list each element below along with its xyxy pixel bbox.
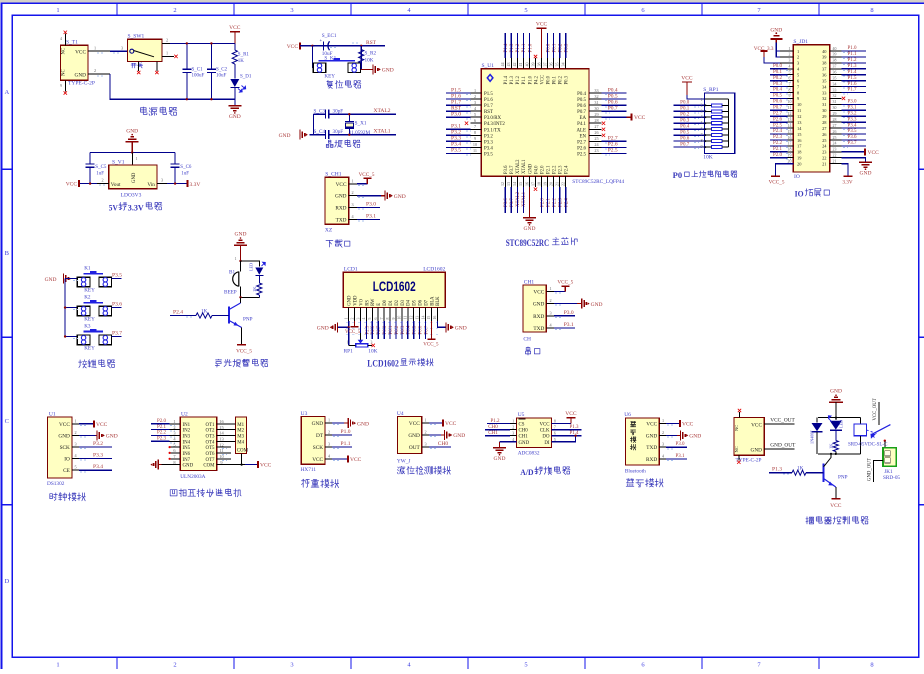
caption shi-zhong-mo-kuai xyxy=(50,493,86,501)
net CH0 level xyxy=(429,446,451,448)
connector JD1 40-pin IO header xyxy=(793,45,829,172)
diode 1N4007 xyxy=(816,418,818,423)
JD1 left pin wires xyxy=(780,50,793,52)
resistor relay 1K xyxy=(835,430,837,440)
svg-text:5: 5 xyxy=(368,318,372,320)
svg-text:CH1: CH1 xyxy=(519,435,529,440)
svg-text:3: 3 xyxy=(550,310,552,315)
svg-text:XTAL2: XTAL2 xyxy=(374,108,391,114)
svg-text:P3.5: P3.5 xyxy=(112,272,122,278)
svg-text:35: 35 xyxy=(833,77,837,81)
svg-text:STC89C52RC: STC89C52RC xyxy=(506,238,550,248)
svg-text:RST: RST xyxy=(366,40,377,46)
svg-text:GND_OUT: GND_OUT xyxy=(770,443,796,449)
svg-text:VCC: VCC xyxy=(96,422,108,428)
svg-text:P4.3/INT2: P4.3/INT2 xyxy=(484,122,505,127)
svg-text:1K: 1K xyxy=(238,59,245,64)
svg-text:1: 1 xyxy=(662,418,664,423)
level module U4 YW_J xyxy=(398,417,422,454)
svg-text:Vout: Vout xyxy=(111,182,121,188)
svg-text:RS: RS xyxy=(365,300,370,306)
svg-text:28: 28 xyxy=(594,118,598,123)
power VCC_5 serial xyxy=(554,291,565,293)
svg-text:14: 14 xyxy=(788,124,792,128)
svg-text:P3.2: P3.2 xyxy=(484,134,493,139)
svg-text:LCD1602: LCD1602 xyxy=(373,279,416,294)
resistor RP1 element 5 xyxy=(711,128,722,131)
svg-text:B: B xyxy=(5,250,10,257)
svg-text:P0.5: P0.5 xyxy=(680,130,690,135)
svg-text:S_X1: S_X1 xyxy=(355,121,367,127)
svg-text:VCC: VCC xyxy=(260,463,272,469)
svg-text:40: 40 xyxy=(833,47,837,51)
svg-text:P1.4: P1.4 xyxy=(504,75,509,84)
svg-text:1: 1 xyxy=(352,178,354,183)
svg-text:D3: D3 xyxy=(401,299,406,305)
svg-text:S_R1: S_R1 xyxy=(238,53,250,58)
svg-text:CS: CS xyxy=(519,423,525,428)
svg-text:GND: GND xyxy=(229,114,241,120)
ADC U5 ADC0832 xyxy=(516,418,551,448)
transistor Q2 PNP relay xyxy=(822,464,824,482)
svg-text:8: 8 xyxy=(870,7,873,14)
net P3.2 clock SCK xyxy=(79,446,112,448)
svg-text:11: 11 xyxy=(788,106,792,110)
svg-text:9: 9 xyxy=(701,145,703,149)
wire alarm right branch xyxy=(241,261,260,267)
svg-text:3.3V: 3.3V xyxy=(842,180,852,186)
svg-text:5: 5 xyxy=(524,7,527,14)
svg-text:XZ: XZ xyxy=(325,228,333,234)
svg-text:36: 36 xyxy=(548,63,553,67)
svg-text:P2.1: P2.1 xyxy=(546,165,551,174)
pushbutton K3 KEY xyxy=(65,336,77,338)
regulator V1 LDO3V3 xyxy=(132,153,134,165)
ground LDO top xyxy=(126,141,139,143)
net P0.5 pullup xyxy=(674,134,705,136)
svg-text:CH0: CH0 xyxy=(438,441,449,447)
svg-text:P1.3: P1.3 xyxy=(510,75,515,84)
svg-text:S_V1: S_V1 xyxy=(112,159,125,165)
net P3.1 bluetooth xyxy=(666,458,687,460)
svg-text:39: 39 xyxy=(833,53,837,57)
svg-text:IN1: IN1 xyxy=(183,423,191,428)
svg-text:30pF: 30pF xyxy=(333,129,344,135)
svg-text:P3.4: P3.4 xyxy=(93,464,103,470)
svg-text:S_JD1: S_JD1 xyxy=(793,39,808,45)
caption an-jian-dian-lu xyxy=(79,360,115,368)
caption xia-zai-kou xyxy=(326,240,350,248)
svg-text:U3: U3 xyxy=(301,411,308,417)
svg-text:P4.0: P4.0 xyxy=(534,165,539,174)
svg-text:P3.0: P3.0 xyxy=(366,201,376,207)
svg-text:15: 15 xyxy=(788,130,792,134)
svg-text:HX711: HX711 xyxy=(301,467,317,473)
svg-text:IO: IO xyxy=(795,189,804,199)
svg-text:1: 1 xyxy=(56,662,59,669)
svg-text:32: 32 xyxy=(822,96,826,101)
svg-text:P3.2: P3.2 xyxy=(847,111,857,116)
svg-text:P2.5: P2.5 xyxy=(608,148,618,154)
svg-text:2: 2 xyxy=(328,430,330,435)
net P3.1 download xyxy=(357,219,380,221)
svg-text:41: 41 xyxy=(518,63,523,67)
svg-text:20: 20 xyxy=(788,160,792,164)
svg-text:27: 27 xyxy=(594,124,598,129)
svg-text:IN6: IN6 xyxy=(183,452,191,457)
svg-text:P3.0: P3.0 xyxy=(675,442,685,447)
caption sheng-guang-bao-jing xyxy=(215,359,268,367)
net P1.0 HX711 xyxy=(332,434,352,436)
svg-text:P2.4: P2.4 xyxy=(173,310,183,316)
svg-text:P3.3: P3.3 xyxy=(484,140,493,145)
svg-text:VCC: VCC xyxy=(350,457,362,463)
wire relay common up VCC_OUT xyxy=(878,402,880,425)
ground LCD left xyxy=(337,322,339,332)
svg-text:3: 3 xyxy=(356,318,360,320)
svg-text:P1.4: P1.4 xyxy=(847,70,857,75)
net P3.0 download xyxy=(357,206,380,208)
svg-text:TYPE-C-2P: TYPE-C-2P xyxy=(68,80,95,86)
resistor alarm base 1K xyxy=(212,315,229,317)
svg-text:DO: DO xyxy=(542,435,550,440)
svg-text:P0.4: P0.4 xyxy=(773,88,783,93)
net P0.1 pullup xyxy=(674,110,705,112)
net P3.3 clock IO xyxy=(79,458,112,460)
LCD pin1 GND wire xyxy=(338,321,349,328)
svg-text:P2.3: P2.3 xyxy=(157,437,167,442)
svg-text:33: 33 xyxy=(833,88,837,92)
svg-text:P1.7: P1.7 xyxy=(847,88,857,93)
svg-text:21: 21 xyxy=(822,162,826,167)
svg-text:P1.3: P1.3 xyxy=(772,467,782,473)
wire OT2 to M2 xyxy=(217,429,236,431)
svg-text:P2.3: P2.3 xyxy=(559,165,564,174)
svg-text:A: A xyxy=(4,89,9,96)
svg-text:C: C xyxy=(5,418,9,425)
svg-text:S_CH1: S_CH1 xyxy=(325,172,341,178)
svg-text:8: 8 xyxy=(789,88,791,92)
svg-text:GND: GND xyxy=(126,128,138,134)
svg-text:23: 23 xyxy=(833,148,837,152)
svg-text:2: 2 xyxy=(797,55,799,60)
svg-text:IN4: IN4 xyxy=(183,440,191,445)
ground reset xyxy=(360,63,362,69)
svg-text:30: 30 xyxy=(833,106,837,110)
svg-text:XTAL1: XTAL1 xyxy=(522,159,527,174)
wire contact to JK1 xyxy=(884,441,886,448)
svg-text:VCC: VCC xyxy=(336,182,347,188)
svg-text:YW_J: YW_J xyxy=(397,459,411,465)
ground keys xyxy=(63,274,65,284)
svg-text:1: 1 xyxy=(797,49,799,54)
svg-text:S_T1: S_T1 xyxy=(66,40,78,46)
svg-text:40: 40 xyxy=(524,63,529,67)
LCD light blue artifacts xyxy=(346,322,438,324)
svg-text:17: 17 xyxy=(788,142,792,146)
resistor pack RP1 10K xyxy=(705,93,735,153)
svg-text:5: 5 xyxy=(701,121,703,125)
svg-text:VCC: VCC xyxy=(751,422,762,428)
wire T1 VCC to switch xyxy=(88,50,110,52)
svg-text:29: 29 xyxy=(594,112,598,117)
svg-text:CH0: CH0 xyxy=(519,429,529,434)
svg-text:P0.6: P0.6 xyxy=(773,100,783,105)
svg-text:5V: 5V xyxy=(109,203,119,213)
power VCC bluetooth xyxy=(666,423,680,425)
svg-text:P0.0: P0.0 xyxy=(546,75,551,84)
svg-text:OT2: OT2 xyxy=(206,429,216,434)
svg-text:S_RP1: S_RP1 xyxy=(703,87,719,93)
caption ji-dian-qi relay control xyxy=(806,516,868,524)
svg-text:18: 18 xyxy=(536,182,541,186)
svg-text:19: 19 xyxy=(788,154,792,158)
svg-text:14: 14 xyxy=(512,182,517,186)
svg-text:1: 1 xyxy=(345,318,349,320)
svg-text:P1.5: P1.5 xyxy=(484,92,493,97)
svg-text:GND: GND xyxy=(689,434,701,440)
svg-text:OT5: OT5 xyxy=(206,446,216,451)
svg-text:28: 28 xyxy=(833,118,837,122)
resistor relay base 1K xyxy=(806,472,824,474)
svg-text:6: 6 xyxy=(374,318,378,320)
svg-text:P0: P0 xyxy=(673,170,683,180)
svg-text:10: 10 xyxy=(473,142,477,147)
svg-text:3: 3 xyxy=(701,109,703,113)
svg-text:P0.2: P0.2 xyxy=(559,75,564,84)
svg-text:P1.6: P1.6 xyxy=(847,82,857,87)
svg-text:8: 8 xyxy=(701,139,703,143)
LED D1 xyxy=(234,64,236,79)
svg-text:GND: GND xyxy=(235,232,247,238)
svg-text:13: 13 xyxy=(788,118,792,122)
svg-text:31: 31 xyxy=(833,100,837,104)
svg-text:P0.0: P0.0 xyxy=(773,64,783,69)
svg-text:P1.2: P1.2 xyxy=(516,75,521,84)
svg-text:34: 34 xyxy=(561,63,566,67)
svg-text:GND: GND xyxy=(394,194,406,200)
svg-text:10K: 10K xyxy=(703,155,713,161)
resistor RP1 element 4 xyxy=(711,122,722,125)
svg-text:6: 6 xyxy=(789,77,791,81)
svg-text:VCC: VCC xyxy=(539,423,549,428)
svg-text:VCC: VCC xyxy=(565,411,577,417)
svg-text:3: 3 xyxy=(328,441,330,446)
svg-text:100uF: 100uF xyxy=(192,74,205,79)
net P0.3 pullup xyxy=(674,122,705,124)
svg-text:LCD1602: LCD1602 xyxy=(423,267,445,273)
svg-text:P3.0: P3.0 xyxy=(564,310,574,316)
svg-text:U5: U5 xyxy=(518,412,525,418)
ground bluetooth xyxy=(666,434,677,436)
svg-text:IN2: IN2 xyxy=(183,429,191,434)
svg-text:IN3: IN3 xyxy=(183,435,191,440)
svg-text:P3.1/TX: P3.1/TX xyxy=(484,128,501,133)
svg-text:P3.7: P3.7 xyxy=(112,330,122,336)
svg-text:GND: GND xyxy=(312,421,324,427)
svg-text:P0.1: P0.1 xyxy=(773,70,783,75)
wire OT4 to M4 xyxy=(217,440,236,442)
relay bottom rail xyxy=(818,453,860,455)
net P3.0 serial xyxy=(554,315,575,317)
svg-text:P2.5: P2.5 xyxy=(773,123,783,128)
svg-text:39: 39 xyxy=(530,63,535,67)
svg-text:BLA: BLA xyxy=(430,296,435,306)
svg-text:GND: GND xyxy=(455,326,467,332)
LCD pin3 VO to potentiometer xyxy=(360,321,362,333)
net P0.2 pullup xyxy=(674,116,705,118)
svg-text:P2.0: P2.0 xyxy=(540,165,545,174)
svg-text:12: 12 xyxy=(410,316,414,320)
caption lan-ya-mo-kuai xyxy=(626,479,663,487)
svg-text:2: 2 xyxy=(662,430,664,435)
svg-text:D1: D1 xyxy=(389,299,394,305)
svg-text:CH1: CH1 xyxy=(524,279,535,285)
svg-text:P3.1: P3.1 xyxy=(675,454,685,459)
switch right pin 2 xyxy=(162,42,170,44)
svg-text:3: 3 xyxy=(290,662,293,669)
svg-text:TXD: TXD xyxy=(336,218,347,224)
svg-text:CE: CE xyxy=(63,468,70,474)
svg-text:VCC_5: VCC_5 xyxy=(423,343,439,348)
svg-text:VCC: VCC xyxy=(409,421,420,427)
svg-text:1: 1 xyxy=(56,7,59,14)
display LCD1 LCD1602 xyxy=(343,272,445,307)
svg-text:GND: GND xyxy=(830,388,842,394)
power VCC clock xyxy=(79,423,94,425)
svg-text:VCC: VCC xyxy=(229,25,241,31)
svg-text:XTAL1: XTAL1 xyxy=(374,129,391,135)
svg-text:20: 20 xyxy=(548,182,553,186)
svg-text:P3.6: P3.6 xyxy=(847,135,857,140)
svg-text:P4.1: P4.1 xyxy=(577,122,586,127)
svg-text:29: 29 xyxy=(833,112,837,116)
svg-text:NC: NC xyxy=(734,446,739,452)
svg-text:P0.3: P0.3 xyxy=(565,75,570,84)
svg-text:GND: GND xyxy=(770,28,782,34)
svg-text:S_SW1: S_SW1 xyxy=(128,34,145,40)
svg-text:VCC: VCC xyxy=(75,49,86,55)
svg-text:7: 7 xyxy=(474,124,476,129)
power VCC HX711 xyxy=(332,458,348,460)
wire LDO top rail xyxy=(90,152,175,154)
wire OT1 to M1 xyxy=(217,423,236,425)
svg-text:NC: NC xyxy=(734,425,739,431)
border row ticks left xyxy=(2,168,13,170)
CS overline xyxy=(519,418,526,420)
svg-text:VCC: VCC xyxy=(681,76,693,82)
svg-text:VCC: VCC xyxy=(312,457,323,463)
LCD pin2 VCC_5 xyxy=(354,321,356,327)
svg-text:P2.7: P2.7 xyxy=(773,111,783,116)
svg-text:KEY: KEY xyxy=(324,74,335,80)
svg-text:VCC: VCC xyxy=(445,421,457,427)
svg-text:5: 5 xyxy=(75,465,77,470)
svg-text:38: 38 xyxy=(536,63,541,67)
svg-text:43: 43 xyxy=(506,63,511,67)
svg-text:12: 12 xyxy=(788,112,792,116)
svg-text:33: 33 xyxy=(594,88,598,93)
svg-text:26: 26 xyxy=(594,130,598,135)
ground LCD right xyxy=(445,322,447,332)
svg-text:3: 3 xyxy=(512,432,514,436)
svg-text:PNP: PNP xyxy=(243,317,253,323)
net P3.0 bluetooth xyxy=(666,446,687,448)
svg-text:BEEP: BEEP xyxy=(224,290,237,296)
svg-text:37: 37 xyxy=(833,65,837,69)
VCC input left xyxy=(97,183,109,185)
svg-text:LDO3V3: LDO3V3 xyxy=(121,193,142,199)
svg-text:30: 30 xyxy=(594,106,598,111)
svg-text:KEY: KEY xyxy=(84,346,95,352)
svg-text:27: 27 xyxy=(833,124,837,128)
svg-text:P3.1: P3.1 xyxy=(564,322,574,328)
connector T1 TYPE-C-2P xyxy=(61,45,89,80)
svg-text:SRD-05VDC-SL-C: SRD-05VDC-SL-C xyxy=(848,442,888,447)
svg-text:VCC: VCC xyxy=(66,182,78,188)
svg-text:P3.3: P3.3 xyxy=(451,136,461,142)
svg-text:P0.1: P0.1 xyxy=(680,107,690,112)
net P1.4 ADC DO/DI xyxy=(551,435,581,437)
svg-text:3: 3 xyxy=(290,7,293,14)
svg-text:P0.7: P0.7 xyxy=(773,106,783,111)
svg-text:P0.7: P0.7 xyxy=(608,105,618,111)
svg-text:GND: GND xyxy=(519,441,530,446)
svg-text:P3.0/RX: P3.0/RX xyxy=(484,116,501,121)
net P0.0 pullup xyxy=(674,104,705,106)
svg-text:SCK: SCK xyxy=(313,445,323,451)
weighing module U3 HX711 xyxy=(301,417,325,465)
relay coil K1 SRD-05VDC-SL-C xyxy=(859,418,861,425)
T1 top pin xyxy=(64,34,66,46)
svg-text:P2.2: P2.2 xyxy=(773,141,783,146)
svg-text:5: 5 xyxy=(474,112,476,117)
svg-text:SRD-05: SRD-05 xyxy=(883,475,900,481)
switch right pin 1 no-connect xyxy=(162,55,174,57)
svg-text:1K: 1K xyxy=(797,466,804,472)
svg-text:P4.2: P4.2 xyxy=(534,75,539,84)
svg-text:3.3V: 3.3V xyxy=(190,182,201,188)
svg-text:8: 8 xyxy=(870,662,873,669)
ULN2003 unused outputs xyxy=(217,446,231,448)
svg-text:VCC_5: VCC_5 xyxy=(236,349,252,355)
svg-text:VCC_OUT: VCC_OUT xyxy=(770,418,795,424)
resistor RP1 element 6 xyxy=(711,134,722,137)
ground crystal xyxy=(299,130,301,140)
svg-text:2: 2 xyxy=(352,190,354,195)
buzzer B1 BEEP xyxy=(240,261,242,272)
svg-text:D0: D0 xyxy=(383,299,388,305)
svg-text:VCC: VCC xyxy=(533,290,544,296)
svg-text:P2.1: P2.1 xyxy=(157,425,167,430)
resistor R2 10K xyxy=(360,46,362,50)
svg-text:VCC: VCC xyxy=(682,422,694,428)
svg-text:P3.3: P3.3 xyxy=(93,453,103,459)
power VCC relay xyxy=(835,487,837,499)
svg-text:2: 2 xyxy=(789,53,791,57)
power VCC level xyxy=(429,422,443,424)
svg-text:K1: K1 xyxy=(84,265,91,271)
svg-text:1: 1 xyxy=(425,418,427,423)
svg-text:32: 32 xyxy=(594,94,598,99)
power VCC xyxy=(230,31,240,33)
caption chuan-kou xyxy=(526,347,540,355)
border row ticks right xyxy=(919,168,924,170)
svg-text:GND: GND xyxy=(646,433,658,439)
LED relay xyxy=(835,418,837,421)
caption jing-zhen-dian-lu xyxy=(326,140,360,148)
relay top rail xyxy=(818,417,860,419)
